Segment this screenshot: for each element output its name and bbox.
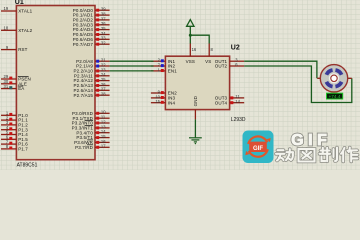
U2 reference label: [231, 45, 240, 52]
U1 pin P3.5/T1 (pin 15): [76, 134, 109, 140]
watermark badge (GIF maker logo): [243, 131, 274, 164]
svg-text:17: 17: [101, 144, 106, 149]
U2 pin IN4 (pin 15): [151, 99, 176, 105]
ground symbol: [189, 138, 202, 145]
U2 pin IN3 (pin 10): [151, 94, 176, 100]
U1 pin P3.2/INT0 (pin 12): [72, 119, 110, 125]
svg-text:OUT2: OUT2: [215, 64, 228, 69]
U2 pin VS (pin 8): [205, 44, 213, 64]
U1 pin P0.7/AD7 (pin 32): [73, 41, 110, 47]
U2 pin VSS (pin 16): [186, 44, 197, 64]
U1 pin P2.0/A8 (pin 21): [76, 58, 109, 64]
svg-text:IN4: IN4: [168, 100, 176, 105]
U1 pin P1.3 (pin 4): [1, 125, 28, 132]
svg-text:31: 31: [4, 84, 9, 89]
U1 pin P3.3/INT1 (pin 13): [72, 124, 110, 130]
U1 pin P2.3/A11 (pin 24): [74, 72, 110, 78]
U2 pin OUT2 (pin 6): [215, 62, 244, 68]
U2 pin GND: [193, 95, 198, 119]
svg-text:32: 32: [101, 41, 106, 46]
wire P2.0/A8 to IN1: [110, 60, 154, 62]
U2 pin OUT4 (pin 14): [215, 99, 244, 105]
svg-text:19: 19: [4, 6, 9, 11]
wire power to VS: [190, 35, 209, 43]
U1 pin RST (pin 9): [1, 45, 28, 52]
watermark text GIF: [291, 132, 331, 149]
U1 pin P1.7 (pin 8): [1, 144, 28, 151]
U1 pin P2.5/A13 (pin 26): [74, 82, 110, 88]
motor driver U2 body: [165, 56, 229, 109]
U1 pin P0.0/AD0 (pin 39): [73, 7, 110, 13]
U2 pin EN2 (pin 9): [151, 89, 177, 95]
svg-text:14: 14: [235, 99, 240, 104]
svg-text:U2: U2: [231, 45, 240, 52]
U1 pin P2.4/A12 (pin 25): [74, 77, 110, 83]
power terminal (VCC arrow): [187, 20, 194, 44]
watermark text zhi (制): [320, 148, 338, 162]
svg-text:VS: VS: [205, 59, 211, 64]
junction power rail: [189, 34, 192, 37]
U1 pin P1.4 (pin 5): [1, 130, 28, 137]
svg-text:GIF: GIF: [291, 132, 331, 149]
U1 pin P0.5/AD5 (pin 34): [73, 31, 110, 37]
U2 pin OUT3 (pin 11): [215, 94, 244, 100]
U2 value label L293D: [231, 117, 246, 123]
svg-text:EN1: EN1: [168, 69, 177, 74]
svg-text:P0.7/AD7: P0.7/AD7: [73, 42, 94, 47]
U2 pin OUT1 (pin 3): [215, 57, 244, 63]
svg-text:EA: EA: [18, 86, 24, 91]
wire P2.1/A9 to IN2: [110, 65, 154, 67]
U1 pin P3.6/WR (pin 16): [74, 139, 109, 145]
U1 pin PSEN (pin 29): [1, 74, 31, 81]
U1 pin P0.2/AD2 (pin 37): [73, 16, 110, 22]
U1 pin P2.2/A10 (pin 23): [74, 67, 110, 73]
motor RPM readout value: [327, 93, 343, 99]
U1 pin P3.1/TXD (pin 11): [73, 115, 110, 121]
U1 pin P2.6/A14 (pin 27): [74, 87, 110, 93]
svg-text:GND: GND: [193, 95, 198, 106]
wire P2.2/A10 to EN1: [110, 70, 154, 72]
svg-text:28: 28: [101, 92, 106, 97]
U1 pin P3.0/RXD (pin 10): [72, 110, 110, 116]
svg-text:U1: U1: [15, 0, 24, 6]
svg-text:15: 15: [155, 99, 160, 104]
svg-text:VSS: VSS: [186, 59, 195, 64]
svg-text:P3.7/RD: P3.7/RD: [75, 145, 93, 150]
wire GND pin to ground: [194, 119, 196, 137]
svg-text:L293D: L293D: [231, 117, 246, 123]
U1 pin P0.6/AD6 (pin 33): [73, 36, 110, 42]
U1 pin P0.4/AD4 (pin 35): [73, 26, 110, 32]
U2 pin IN2 (pin 7): [151, 62, 176, 68]
microcontroller U1 body: [16, 6, 95, 160]
watermark text dong (动): [276, 149, 293, 160]
U1 value label AT89C51: [17, 162, 38, 168]
U1 pin P0.1/AD1 (pin 38): [73, 12, 110, 18]
motor M1 body: [320, 65, 347, 92]
U1 pin EA (pin 31): [1, 84, 24, 91]
U1 pin P1.2 (pin 3): [1, 120, 28, 127]
svg-text:OUT4: OUT4: [215, 100, 228, 105]
svg-text:RST: RST: [18, 47, 27, 52]
svg-text:AT89C51: AT89C51: [17, 162, 38, 168]
U1 reference label: [15, 0, 24, 6]
svg-text:+74.4: +74.4: [329, 94, 341, 99]
U1 pin XTAL1 (pin 19): [1, 6, 33, 13]
U1 pin P2.7/A15 (pin 28): [74, 92, 110, 98]
svg-text:XTAL2: XTAL2: [18, 28, 32, 33]
svg-text:P2.7/A15: P2.7/A15: [74, 93, 94, 98]
U2 pin EN1 (pin 1): [151, 67, 177, 73]
watermark text zuo (作): [341, 148, 358, 162]
U1 pin XTAL2 (pin 18): [1, 26, 33, 33]
U1 pin P1.1 (pin 2): [1, 115, 28, 122]
wire OUT2 to motor right terminal: [244, 66, 352, 103]
wire OUT1 to motor left terminal: [244, 61, 317, 78]
U1 pin P3.4/T0 (pin 14): [76, 129, 109, 135]
U1 pin P0.3/AD3 (pin 36): [73, 21, 110, 27]
U1 pin P1.5 (pin 6): [1, 135, 28, 142]
motor M1 left pin: [317, 77, 320, 79]
motor M1 right pin: [348, 77, 352, 79]
svg-text:GIF: GIF: [253, 146, 263, 152]
U1 pin P3.7/RD (pin 17): [75, 144, 109, 150]
U1 pin P1.6 (pin 7): [1, 139, 28, 146]
svg-text:XTAL1: XTAL1: [18, 9, 32, 14]
U2 pin IN1 (pin 2): [151, 58, 176, 64]
svg-text:16: 16: [192, 47, 197, 52]
U1 pin P2.1/A9 (pin 22): [76, 62, 109, 68]
svg-text:18: 18: [4, 26, 9, 31]
watermark text tu (图): [299, 149, 315, 162]
U1 pin P1.0 (pin 1): [1, 111, 28, 118]
U1 pin ALE (pin 30): [1, 79, 27, 86]
svg-text:P1.7: P1.7: [18, 147, 28, 152]
